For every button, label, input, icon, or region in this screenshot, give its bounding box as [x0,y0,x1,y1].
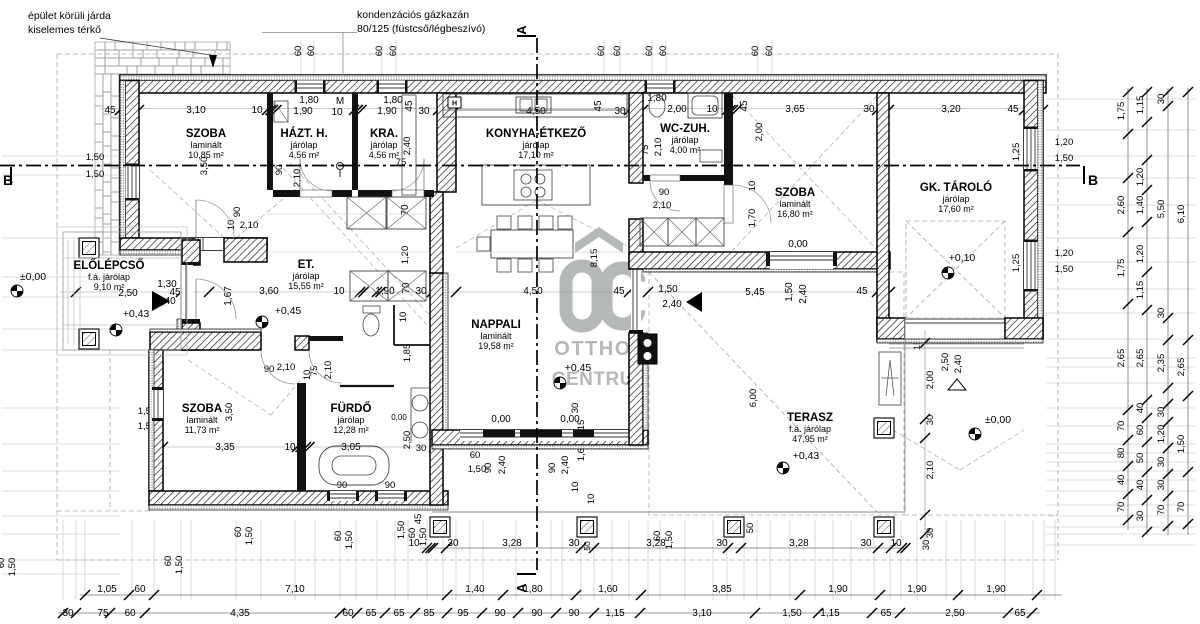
svg-text:1,90: 1,90 [377,106,397,117]
svg-text:B: B [3,172,13,188]
svg-text:0,00: 0,00 [788,239,808,250]
svg-text:60: 60 [750,46,761,57]
svg-text:30: 30 [416,443,427,454]
svg-text:90: 90 [531,608,543,619]
svg-text:4,56 m²: 4,56 m² [289,150,320,160]
svg-text:65: 65 [880,608,892,619]
kra door opening [392,190,424,197]
nappali south windows band [460,430,629,441]
window south furdo 1 (90) [330,491,356,501]
svg-text:+0,43: +0,43 [123,308,150,320]
svg-text:2,10: 2,10 [277,362,296,373]
svg-text:B: B [1088,172,1098,188]
svg-text:2,65: 2,65 [1116,349,1127,368]
svg-text:2,40: 2,40 [402,137,413,156]
svg-text:11,73 m²: 11,73 m² [185,425,220,435]
svg-text:10: 10 [747,181,758,192]
svg-text:1,20: 1,20 [400,246,411,265]
boiler H box [448,97,461,108]
gas boiler symbol [337,163,344,170]
interior dimension row bathroom [150,442,440,452]
svg-text:4,00 m²: 4,00 m² [670,145,701,155]
svg-text:1,50: 1,50 [86,169,105,180]
svg-text:60: 60 [124,608,136,619]
right dimension chain column 3 [1156,87,1173,535]
svg-text:2,00: 2,00 [667,104,687,115]
terrace post 1 [430,517,450,537]
svg-text:90: 90 [547,463,558,474]
svg-text:50: 50 [582,541,592,551]
szoba3 west wall [149,350,163,491]
fireplace [638,334,657,364]
svg-text:2,00: 2,00 [754,123,765,142]
terrace edge lines [432,511,905,513]
svg-text:30: 30 [1135,511,1146,522]
right dimension chain column 2 [1135,87,1152,537]
entry niche cap [182,262,200,265]
svg-text:kiselemes térkő: kiselemes térkő [28,24,101,36]
porch post 2 [79,329,99,349]
svg-text:1,25: 1,25 [1011,254,1022,273]
kitchen-wc partition wall [629,93,643,183]
svg-text:1,50: 1,50 [344,531,355,550]
svg-text:ELŐLÉPCSŐ: ELŐLÉPCSŐ [74,259,145,272]
window west (1,50) [126,166,140,198]
svg-text:40: 40 [1135,480,1146,491]
svg-text:járólap: járólap [941,194,969,204]
garage south wall east corner [1005,318,1043,339]
svg-text:4,35: 4,35 [230,608,250,619]
svg-text:60: 60 [764,46,775,57]
svg-text:70: 70 [1116,502,1127,513]
corridor guide lines [267,213,430,215]
svg-text:A: A [514,25,529,35]
garage south wall west corner [877,318,905,339]
svg-text:10: 10 [251,105,263,116]
svg-text:45: 45 [1007,104,1019,115]
garage south insulation [877,339,1043,343]
walkway paving left band [95,74,127,255]
svg-text:A: A [514,583,529,593]
svg-text:1,05: 1,05 [97,584,117,595]
svg-text:5,50: 5,50 [1156,200,1167,219]
north wall insulation band [120,75,1046,81]
svg-text:80: 80 [1116,448,1127,459]
hazt door opening [300,190,332,197]
svg-text:2,40: 2,40 [798,284,809,304]
svg-text:járólap: járólap [336,415,364,425]
svg-text:70: 70 [1116,421,1127,432]
svg-text:2,40: 2,40 [560,456,571,475]
svg-text:45: 45 [404,100,415,112]
terrace post 4 [874,517,894,537]
szoba1 south wall [120,238,267,250]
svg-text:1,20: 1,20 [1135,245,1146,264]
svg-text:3,10: 3,10 [186,105,206,116]
nappali west / furdo east wall [430,273,443,505]
svg-text:±0,00: ±0,00 [985,414,1011,426]
svg-text:járólap: járólap [369,140,397,150]
svg-text:60: 60 [388,46,399,57]
szoba3 north wall east piece [295,336,309,350]
west wall below entry [182,323,200,350]
svg-text:30: 30 [568,538,580,549]
svg-text:laminált: laminált [186,415,218,425]
svg-text:H: H [452,101,457,108]
svg-text:1,75: 1,75 [1116,259,1127,278]
level marker terrace [777,462,789,474]
svg-text:1,50: 1,50 [664,531,675,550]
svg-text:2,00: 2,00 [925,371,936,390]
entry niche wall vertical [182,240,200,265]
svg-text:f.á. járólap: f.á. járólap [88,272,130,282]
svg-text:60: 60 [306,46,317,57]
svg-text:járólap: járólap [670,135,698,145]
svg-text:6,00: 6,00 [748,389,759,408]
svg-text:WC-ZUH.: WC-ZUH. [660,123,710,135]
svg-text:90: 90 [385,480,396,491]
svg-text:60: 60 [134,584,146,595]
svg-text:laminált: laminált [779,199,811,209]
svg-text:45: 45 [613,286,625,297]
svg-text:30: 30 [1156,407,1167,418]
svg-text:2,40: 2,40 [497,456,508,475]
svg-text:1,25: 1,25 [1011,143,1022,162]
svg-text:90: 90 [337,480,348,491]
hazt-kra partition [352,93,358,190]
kra east wall upper [437,93,456,192]
furdo north half wall [340,385,394,387]
svg-text:75: 75 [97,608,109,619]
dining table [491,230,573,258]
svg-text:HÁZT. H.: HÁZT. H. [280,127,327,140]
svg-text:30: 30 [418,106,430,117]
hazt washing machine [274,101,288,122]
wc door opening [650,175,680,181]
svg-text:60: 60 [374,46,385,57]
entry door opening [180,265,193,319]
wall szoba3-furdo partition [297,383,306,491]
svg-text:30: 30 [1156,308,1167,319]
svg-text:0,00: 0,00 [560,414,580,425]
szoba1 door opening [196,238,224,250]
svg-text:1,15: 1,15 [605,608,625,619]
svg-text:30: 30 [614,106,626,117]
interior dimension row at top of rooms [100,105,1048,115]
svg-text:60: 60 [652,531,663,542]
window south furdo 2 (90) [378,491,404,501]
svg-text:1,70: 1,70 [747,209,758,228]
door arc szoba3 [261,350,295,384]
svg-text:10: 10 [331,107,343,118]
svg-text:2,50: 2,50 [945,608,965,619]
hazt south wall [273,190,352,197]
nappali east wall upper [629,219,643,269]
svg-text:2,40: 2,40 [662,299,682,310]
garage interior line [889,343,1024,345]
svg-text:10,85 m²: 10,85 m² [188,150,224,160]
bottom dimension chain row 1 [408,538,932,553]
door arc wc [650,181,680,211]
terrace post east mid [874,418,894,438]
svg-text:1,50: 1,50 [784,282,795,302]
svg-text:épület körüli járda: épület körüli járda [28,10,111,22]
svg-text:45: 45 [413,514,424,525]
kra south wall [358,190,434,197]
szoba3 north wall [150,332,261,350]
svg-text:16,80 m²: 16,80 m² [777,209,813,219]
svg-text:3,50: 3,50 [224,403,235,422]
svg-text:járólap: járólap [521,140,549,150]
svg-text:30: 30 [716,538,728,549]
svg-text:40: 40 [1116,475,1127,486]
walkway paving top band [95,42,230,74]
window west szoba3 (90) [152,390,163,418]
nappali south wall [432,430,648,445]
nappali east wall lower [629,333,643,445]
svg-text:60: 60 [333,531,344,542]
svg-text:4,56 m²: 4,56 m² [369,150,400,160]
north exterior wall [120,75,1046,93]
svg-text:1,90: 1,90 [986,584,1006,595]
svg-text:70: 70 [1156,505,1167,516]
svg-text:30: 30 [863,104,875,115]
wardrobe et south [350,271,388,301]
svg-text:90: 90 [568,608,580,619]
section B right mark [1083,166,1085,184]
svg-text:7,10: 7,10 [285,584,305,595]
porch outline [57,227,187,355]
kra shelf [402,95,416,195]
svg-text:3,60: 3,60 [259,286,279,297]
hazt wall west [267,93,273,190]
svg-text:1,50: 1,50 [1055,153,1074,164]
bathtub [319,446,389,485]
svg-text:30: 30 [1156,457,1167,468]
svg-text:60: 60 [658,46,669,57]
svg-text:1,50: 1,50 [658,284,678,295]
svg-text:+0,45: +0,45 [565,362,592,374]
svg-text:+0,10: +0,10 [949,252,976,264]
level marker et [256,316,268,328]
svg-text:2,10: 2,10 [292,169,303,188]
svg-text:1,85: 1,85 [402,344,413,363]
svg-text:10: 10 [586,494,597,505]
door arc kra [392,159,424,191]
level marker yard east [969,428,981,440]
roof overhang dashed outline [57,54,1058,560]
svg-text:95: 95 [457,608,469,619]
svg-text:1,40: 1,40 [1135,196,1146,215]
svg-text:2,65: 2,65 [1176,358,1187,377]
section line B horizontal [0,165,1080,167]
svg-text:6,10: 6,10 [1176,205,1187,224]
svg-text:1,90: 1,90 [907,584,927,595]
svg-text:10: 10 [333,286,345,297]
svg-text:8,15: 8,15 [589,249,600,268]
szoba2 door opening [724,185,733,223]
svg-text:60: 60 [1135,425,1146,436]
szoba1 south wall insulation [120,250,181,255]
right dimension chain column 1 [1116,87,1133,530]
svg-text:GK. TÁROLÓ: GK. TÁROLÓ [920,181,992,194]
szoba1 south wall east piece [224,238,267,262]
svg-text:±0,00: ±0,00 [20,271,46,283]
kitchen sink [516,97,551,113]
window north 1 (1,80/1,90) [297,81,323,94]
level marker porch [110,324,122,336]
svg-text:45: 45 [104,105,116,116]
dining chairs [497,216,511,229]
svg-text:1,75: 1,75 [1116,102,1127,121]
svg-text:30: 30 [921,540,932,551]
svg-text:3,20: 3,20 [941,104,961,115]
svg-text:60: 60 [293,46,304,57]
svg-text:kondenzációs gázkazán: kondenzációs gázkazán [357,9,469,21]
svg-text:30: 30 [1156,480,1167,491]
watermark Otthon Centrum logo [575,227,623,253]
bottom dimension chain row 3 [58,608,1040,619]
svg-text:30: 30 [570,403,581,414]
interior dimension row middle [60,287,895,297]
svg-text:3,85: 3,85 [712,584,732,595]
door arc szoba2 [733,185,771,223]
entry arrow [152,291,170,311]
svg-text:65: 65 [1014,608,1026,619]
svg-text:45: 45 [856,286,868,297]
svg-text:3,28: 3,28 [502,538,522,549]
svg-text:2,40: 2,40 [953,355,964,374]
svg-text:80/125 (füstcső/légbeszívó): 80/125 (füstcső/légbeszívó) [357,23,485,35]
svg-text:60: 60 [612,46,623,57]
wc-zuh south wall [643,175,730,181]
svg-text:2,10: 2,10 [925,461,936,480]
svg-text:1,20: 1,20 [1055,248,1074,259]
svg-text:+0,45: +0,45 [275,305,302,317]
svg-text:2,60: 2,60 [1116,196,1127,215]
svg-text:NAPPALI: NAPPALI [471,319,521,331]
svg-text:10: 10 [398,312,409,323]
svg-text:2,35: 2,35 [1156,354,1167,373]
svg-text:+0,43: +0,43 [793,450,820,462]
terrace door east opening [631,269,641,330]
chimney shaft [879,352,901,405]
bathroom sinks [412,395,428,411]
kitchen counter [443,94,627,117]
svg-text:1,90: 1,90 [293,106,313,117]
terrace post 2 [577,517,597,537]
svg-text:12,28 m²: 12,28 m² [333,425,369,435]
right dimension chain column 4 [1176,87,1193,535]
svg-text:1,15: 1,15 [1135,281,1146,300]
svg-text:15,55 m²: 15,55 m² [288,281,324,291]
svg-text:1,20: 1,20 [1135,168,1146,187]
svg-text:90: 90 [494,608,506,619]
svg-text:19,58 m²: 19,58 m² [478,341,514,351]
szoba2-garage wall [877,93,889,341]
svg-text:9,10 m²: 9,10 m² [94,282,125,292]
terrace door sills nappali [483,430,515,437]
window north WC (1,80/2,00) [647,81,673,94]
svg-text:1,90: 1,90 [828,584,848,595]
svg-text:85: 85 [423,608,435,619]
section line A vertical [536,38,538,570]
svg-text:1,50: 1,50 [782,608,802,619]
svg-text:90: 90 [232,207,243,218]
svg-text:1,50: 1,50 [174,556,185,575]
svg-text:30: 30 [860,538,872,549]
section A top mark [517,35,536,37]
terrace sliding door opening [770,252,833,269]
svg-text:50: 50 [1135,453,1146,464]
door arc hazt [300,159,332,191]
terrace door arrow [686,292,702,312]
svg-text:0,00: 0,00 [391,413,407,422]
door arc szoba1 [196,200,234,238]
nappali south wall insulation [432,445,648,449]
svg-text:65: 65 [393,608,405,619]
svg-text:60: 60 [470,450,481,461]
svg-text:1,80: 1,80 [299,95,319,106]
svg-text:70: 70 [1176,502,1187,513]
svg-text:1,40: 1,40 [465,584,485,595]
svg-text:17,10 m²: 17,10 m² [518,150,554,160]
entry lower cap [182,319,200,323]
svg-text:1,15: 1,15 [820,608,840,619]
wc-zuh szoba2 partition [724,93,733,223]
svg-text:3,10: 3,10 [692,608,712,619]
level marker outside west [11,285,23,297]
svg-text:ET.: ET. [298,259,315,271]
south wall of szoba3 and furdo [149,491,448,505]
svg-text:SZOBA: SZOBA [182,403,222,415]
svg-text:5,45: 5,45 [745,287,765,298]
svg-text:45: 45 [739,100,750,112]
svg-text:10: 10 [302,370,313,381]
svg-text:1,80: 1,80 [383,95,403,106]
west exterior wall [120,81,139,239]
bottom dimension chain row 2 [80,584,1062,600]
svg-text:f.á. járólap: f.á. járólap [789,424,831,434]
hob [514,170,552,200]
drain triangle [948,379,966,390]
svg-text:1,15: 1,15 [1135,96,1146,115]
svg-text:90: 90 [483,463,494,474]
svg-text:17,60 m²: 17,60 m² [938,204,974,214]
hall south wall / terrace north [629,252,890,269]
window east 1 (1,20/1,50) [1024,129,1038,169]
kitchen island [482,165,590,205]
wc sink [700,150,722,162]
svg-text:KRA.: KRA. [370,128,398,140]
terrace post 3 [724,517,744,537]
window north 2 (1,80/1,90) [379,81,405,94]
svg-text:1,50: 1,50 [1055,264,1074,275]
svg-text:40: 40 [1135,403,1146,414]
svg-text:járólap: járólap [289,140,317,150]
svg-text:90: 90 [264,364,275,375]
level marker nappali [554,377,566,389]
svg-text:50: 50 [745,523,756,534]
svg-text:1,50: 1,50 [244,527,255,546]
svg-text:1,50: 1,50 [7,558,18,577]
wardrobe kra corridor [347,197,386,229]
level marker garage [942,267,954,279]
svg-text:KONYHA-ÉTKEZŐ: KONYHA-ÉTKEZŐ [486,127,586,140]
svg-text:60: 60 [644,46,655,57]
furdo north wall piece [309,336,343,341]
section B left mark [10,167,12,185]
